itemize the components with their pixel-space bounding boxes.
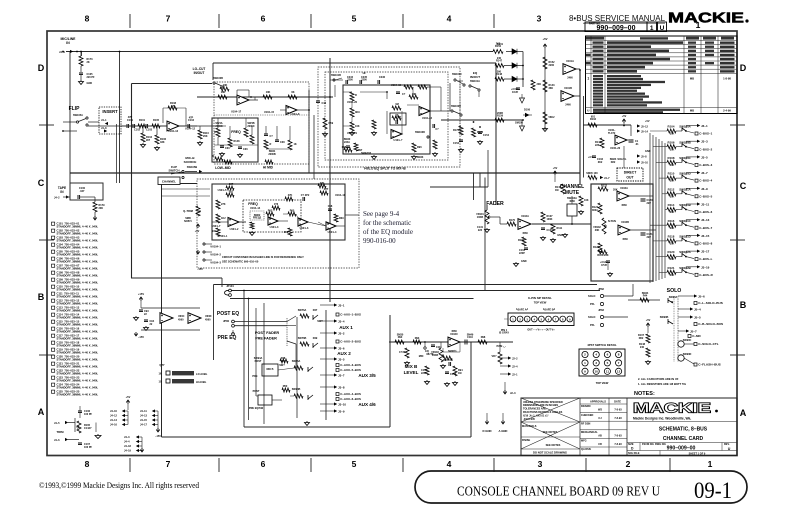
svg-text:R96 ½W: R96 ½W: [443, 358, 453, 362]
svg-text:FADER: FADER: [486, 201, 504, 207]
svg-text:D: D: [38, 63, 45, 73]
svg-text:SM48½: SM48½: [448, 349, 457, 353]
capacitor C101: [127, 124, 129, 128]
svg-text:30K: 30K: [670, 180, 675, 183]
svg-text:4560: 4560: [178, 319, 184, 322]
eq module dashed box row C: [197, 179, 359, 268]
capacitor C102: [133, 124, 135, 128]
cap C? right: [316, 101, 320, 103]
svg-text:D GND: D GND: [482, 429, 491, 433]
pan circuit box: [591, 184, 653, 281]
svg-text:J3–13: J3–13: [701, 218, 710, 222]
capacitor C111 mixb: [431, 345, 435, 347]
svg-text:J4–11: J4–11: [140, 410, 147, 413]
svg-text:STANDOFF, 38MML 4–40 X .040L: STANDOFF, 38MML 4–40 X .040L: [57, 323, 99, 327]
svg-text:240: 240: [497, 57, 502, 60]
svg-text:U104–8: U104–8: [291, 113, 300, 116]
svg-text:STANDOFF, 38MML 4–40 X .040L: STANDOFF, 38MML 4–40 X .040L: [57, 274, 99, 278]
svg-text:J2–4: J2–4: [512, 365, 518, 368]
svg-text:HI: HI: [363, 71, 366, 75]
svg-text:R116: R116: [668, 219, 675, 223]
border frame: [47, 31, 737, 456]
svg-text:J4–10: J4–10: [110, 410, 118, 413]
svg-text:951: 951: [591, 116, 596, 119]
svg-text:POST EQ: POST EQ: [217, 311, 239, 317]
svg-text:J4–9: J4–9: [59, 50, 65, 54]
svg-text:VR?: VR?: [492, 355, 497, 358]
svg-text:100 PF: 100 PF: [84, 413, 93, 416]
svg-text:AUX 3/5: AUX 3/5: [358, 373, 376, 378]
svg-text:30K: 30K: [670, 227, 675, 230]
svg-text:4560: 4560: [522, 232, 528, 235]
dotted control vertical x468: [459, 80, 461, 135]
svg-text:1: 1: [587, 77, 589, 81]
svg-text:SEE NOTES: SEE NOTES: [546, 443, 561, 447]
svg-text:C–FLASH–BUS: C–FLASH–BUS: [698, 363, 721, 367]
resistor R168 56K2: [543, 112, 547, 124]
svg-text:SCH FILE: SCH FILE: [628, 452, 640, 455]
svg-text:6K: 6K: [395, 114, 398, 117]
svg-text:J3–1: J3–1: [701, 124, 708, 128]
svg-text:½U104–3: ½U104–3: [210, 261, 221, 265]
resistor R178: [472, 128, 476, 137]
svg-text:R148: R148: [234, 140, 241, 143]
svg-text:for the schematic: for the schematic: [363, 219, 411, 227]
svg-text:U104–3: U104–3: [270, 226, 279, 229]
svg-text:10KB: 10KB: [477, 216, 484, 219]
wire horizontal y97: [197, 96, 333, 98]
svg-text:SWITCH: SWITCH: [168, 169, 179, 173]
title stadium CONSOLE CHANNEL BOARD: [415, 471, 747, 503]
svg-text:5: 5: [352, 14, 357, 24]
svg-text:10K: 10K: [221, 91, 226, 94]
svg-text:+15V: +15V: [138, 292, 144, 296]
svg-text:J5–10: J5–10: [641, 162, 649, 165]
svg-text:½U104–1: ½U104–1: [210, 245, 221, 249]
wire eq out to fader vertical: [441, 110, 450, 112]
svg-text:R: R: [270, 143, 272, 146]
svg-text:R65: R65: [290, 210, 295, 213]
wire vertical x161 channel: [161, 184, 163, 437]
aux section box edges: [244, 426, 390, 428]
solo transistor Q90: [678, 341, 684, 347]
svg-text:J4–7: J4–7: [604, 177, 610, 180]
wire direct out feed: [583, 124, 631, 126]
svg-text:C–BUS–R: C–BUS–R: [699, 273, 713, 277]
svg-text:JP82: JP82: [598, 288, 604, 291]
svg-text:3: 3: [538, 459, 543, 469]
svg-text:30K: 30K: [670, 243, 675, 246]
svg-text:J3–7: J3–7: [701, 171, 708, 175]
svg-text:+5V: +5V: [195, 230, 200, 233]
svg-text:NOTES:: NOTES:: [634, 391, 655, 397]
svg-text:30K: 30K: [670, 148, 675, 151]
svg-text:C103: C103: [146, 129, 153, 132]
svg-text:SM45 100: SM45 100: [586, 172, 598, 175]
svg-text:223: 223: [478, 229, 483, 232]
svg-text:R128 20K: R128 20K: [597, 254, 608, 257]
svg-text:U: U: [660, 25, 665, 32]
svg-text:2000B: 2000B: [268, 153, 276, 156]
zone ticks left: [39, 124, 54, 126]
supply cap C93: [139, 310, 143, 312]
svg-text:C–AUX–6–BUS: C–AUX–6–BUS: [340, 397, 361, 401]
op-amp eq c1: [228, 217, 239, 226]
resistor R164 vertical: [543, 80, 547, 92]
svg-text:20K: 20K: [595, 229, 600, 232]
svg-text:7: 7: [166, 14, 171, 24]
svg-text:C?: C?: [402, 93, 406, 96]
zone ticks right: [730, 124, 745, 126]
svg-text:CONSOLE CHANNEL BOARD 09 REV U: CONSOLE CHANNEL BOARD 09 REV U: [457, 485, 660, 500]
svg-text:U104–4: U104–4: [328, 231, 337, 234]
part number box 990-009-00: [585, 22, 647, 32]
op-amp U60D: [188, 313, 201, 324]
svg-text:STANDOFF, 38MML 4–40 X .040L: STANDOFF, 38MML 4–40 X .040L: [57, 239, 99, 243]
svg-text:1M: 1M: [395, 103, 398, 106]
svg-text:4560: 4560: [205, 319, 211, 322]
svg-text:STANDOFF, 38MML 4–40 X .040L: STANDOFF, 38MML 4–40 X .040L: [57, 232, 99, 236]
aux35 outputs: [320, 358, 334, 360]
extra ground symbols cluster: [372, 155, 377, 160]
svg-text:C–MD: C–MD: [692, 334, 701, 338]
svg-text:SW103D: SW103D: [415, 131, 425, 134]
svg-text:.047: .047: [80, 190, 85, 193]
wire bus y290: [230, 290, 600, 292]
svg-text:240: 240: [640, 346, 645, 349]
svg-text:GND: GND: [521, 260, 527, 263]
svg-text:U104–13: U104–13: [168, 130, 179, 133]
svg-text:30K: 30K: [670, 211, 675, 214]
svg-text:PFL: PFL: [590, 323, 595, 327]
wire upper routing loop y63: [213, 62, 496, 64]
svg-text:990-016-00: 990-016-00: [363, 237, 396, 245]
svg-text:STANDOFF, 38MML 4–40 X .040L: STANDOFF, 38MML 4–40 X .040L: [57, 253, 99, 257]
svg-text:09-1: 09-1: [694, 478, 732, 504]
svg-text:STANDOFF, 38MML 4–40 X .040L: STANDOFF, 38MML 4–40 X .040L: [57, 365, 99, 369]
svg-text:J3–3: J3–3: [701, 140, 708, 144]
dotted vertical post fader: [286, 318, 288, 346]
eq mute jumper: [424, 347, 426, 349]
+5V direct: [622, 119, 626, 123]
svg-text:+5V: +5V: [542, 37, 547, 41]
svg-text:C–L–SOLO–BUS: C–L–SOLO–BUS: [698, 301, 723, 305]
svg-text:C–AUX–1–BUS: C–AUX–1–BUS: [340, 313, 361, 317]
wire vertical x496 fader feed: [495, 63, 497, 205]
svg-text:J3–19: J3–19: [701, 265, 710, 269]
svg-text:U104–24: U104–24: [422, 117, 433, 120]
svg-text:C–BUS–3: C–BUS–3: [699, 163, 712, 167]
svg-text:MACKIE: MACKIE: [633, 401, 711, 416]
svg-text:STANDOFF, 38MML 4–40 X .040L: STANDOFF, 38MML 4–40 X .040L: [57, 351, 99, 355]
svg-text:U104–2: U104–2: [230, 228, 239, 231]
svg-text:TL072: TL072: [608, 132, 616, 135]
svg-text:J5–7: J5–7: [690, 330, 697, 334]
svg-text:R63: R63: [268, 210, 273, 213]
svg-text:SOLO: SOLO: [667, 288, 682, 294]
svg-text:U103B: U103B: [621, 221, 629, 224]
svg-text:LEVEL: LEVEL: [404, 370, 419, 375]
wires row C internal: [239, 221, 246, 223]
wire solo dotted box: [673, 296, 675, 362]
ground mic input: [79, 80, 84, 85]
svg-text:STANDOFF, 38MML 4–40 X .040L: STANDOFF, 38MML 4–40 X .040L: [57, 358, 99, 362]
svg-text:R49: R49: [313, 337, 318, 340]
svg-text:OUT – + V+ + – OUT: OUT – + V+ + – OUT V+: [527, 329, 555, 332]
svg-text:A GND: A GND: [499, 429, 508, 433]
wire bus y298: [230, 298, 474, 300]
svg-text:C36: C36: [243, 148, 248, 151]
svg-text:22P: 22P: [647, 236, 652, 239]
svg-text:U104–7: U104–7: [212, 225, 221, 228]
svg-text:SOLO: SOLO: [588, 294, 595, 298]
wire bus y173: [70, 172, 580, 174]
svg-text:½U104–2: ½U104–2: [210, 253, 221, 257]
hi/lo eq split dashed box inner: [325, 72, 448, 160]
svg-text:J2–2: J2–2: [512, 357, 518, 360]
svg-text:CHANNEL CARD: CHANNEL CARD: [663, 436, 704, 442]
svg-text:J3–4: J3–4: [338, 320, 345, 324]
capacitor C110 out: [465, 340, 467, 345]
svg-text:MDI: MDI: [419, 355, 424, 358]
analog ground open arrow 2: [521, 120, 523, 126]
wire y278 jp feed: [131, 277, 222, 279]
doc number row: [639, 443, 641, 451]
svg-text:1K2: 1K2: [221, 217, 226, 220]
svg-text:SW?: SW?: [317, 320, 323, 323]
svg-text:R147: R147: [496, 60, 503, 63]
svg-text:R100: R100: [518, 239, 525, 242]
svg-text:R118: R118: [668, 235, 675, 239]
svg-text:U104–15: U104–15: [264, 111, 275, 114]
svg-text:SM42/03: SM42/03: [361, 152, 372, 155]
hi/lo split internals: [350, 92, 354, 101]
switch SW101A symbol: [469, 85, 471, 87]
svg-text:C–BUS–L: C–BUS–L: [699, 257, 712, 261]
svg-text:MB: MB: [690, 77, 694, 81]
svg-text:OUT: OUT: [626, 176, 634, 180]
op-amp U104A: [160, 125, 167, 127]
svg-text:J2–3: J2–3: [510, 392, 516, 395]
fader rc network: [522, 237, 526, 246]
svg-text:C–AUX–3–BUS: C–AUX–3–BUS: [340, 363, 361, 367]
svg-text:J4–16: J4–16: [110, 424, 118, 427]
svg-text:6: 6: [261, 14, 266, 24]
svg-text:FLIP: FLIP: [69, 106, 80, 112]
svg-text:IN/OUT: IN/OUT: [194, 71, 205, 75]
wire direct-out vertical: [630, 125, 632, 136]
svg-text:J3–8: J3–8: [338, 386, 345, 390]
svg-text:3K3: 3K3: [284, 231, 289, 234]
svg-text:J3–11: J3–11: [701, 203, 710, 207]
+5V mute: [553, 171, 557, 175]
svg-text:–15V: –15V: [155, 435, 161, 438]
svg-text:+5V: +5V: [553, 167, 558, 170]
svg-text:MB: MB: [690, 109, 694, 113]
svg-text:J3–17: J3–17: [701, 250, 710, 254]
svg-text:DIRECT: DIRECT: [624, 171, 638, 175]
svg-text:SW?: SW?: [279, 364, 285, 367]
svg-text:PAN ◡: PAN ◡: [497, 344, 506, 348]
capacitor C152: [459, 140, 463, 142]
svg-text:C? 2P2: C? 2P2: [301, 194, 310, 197]
svg-text:STANDOFF, 38MML 4–40 X .040L: STANDOFF, 38MML 4–40 X .040L: [57, 379, 99, 383]
svg-text:J5–5: J5–5: [694, 316, 701, 320]
resistor R146 10K: [579, 196, 583, 206]
wire row C entry: [197, 188, 210, 190]
svg-text:PRE: PRE: [252, 375, 257, 378]
svg-text:AB: AB: [598, 434, 602, 437]
aux46 outputs: [320, 386, 334, 388]
pan detail pot: [498, 352, 502, 364]
svg-text:PART NO.: PART NO.: [589, 23, 601, 26]
svg-text:MECHANICAL: MECHANICAL: [581, 431, 598, 434]
svg-text:SW94B: SW94B: [292, 388, 301, 391]
resistor R122 20K: [598, 187, 608, 191]
op-amp U60C: [160, 313, 173, 324]
svg-text:30K: 30K: [670, 164, 675, 167]
svg-text:TOP VIEW: TOP VIEW: [596, 381, 609, 385]
svg-text:SHEET 1 OF 9: SHEET 1 OF 9: [689, 453, 706, 456]
svg-text:©1993,©1999 Mackie Designs Inc: ©1993,©1999 Mackie Designs Inc. All righ…: [39, 481, 199, 490]
capacitor C121: [641, 233, 646, 235]
svg-text:MUTE: MUTE: [565, 190, 580, 196]
svg-text:36K: 36K: [549, 87, 554, 90]
analog ground open arrow 1: [521, 94, 523, 98]
trim gnd: [95, 423, 97, 433]
svg-text:STANDOFF, 38MML 4–40 X .040L: STANDOFF, 38MML 4–40 X .040L: [57, 386, 99, 390]
svg-text:C142Y: C142Y: [84, 427, 92, 430]
svg-text:CIRCUIT CONTAINED IN DASHED LI: CIRCUIT CONTAINED IN DASHED LINE IS FOR …: [222, 255, 304, 259]
wire fader to mute: [532, 223, 591, 225]
svg-text:200R: 200R: [497, 112, 503, 115]
aux internal wires: [243, 291, 245, 428]
svg-text:STANDOFF, 38MML 4–40 X .040L: STANDOFF, 38MML 4–40 X .040L: [57, 330, 99, 334]
svg-text:30K: 30K: [670, 274, 675, 277]
svg-text:STANDOFF, 38MML 4–40 X .040L: STANDOFF, 38MML 4–40 X .040L: [57, 372, 99, 376]
svg-text:7-8-93: 7-8-93: [614, 434, 622, 437]
resistor R44 solo: [640, 298, 649, 302]
svg-text:of the EQ module: of the EQ module: [363, 228, 413, 236]
parts list standoffs: [52, 222, 55, 225]
svg-text:C–BUS–7: C–BUS–7: [699, 226, 712, 230]
svg-text:1: 1: [708, 459, 713, 469]
svg-text:STANDOFF, 38MML 4–40 X .040L: STANDOFF, 38MML 4–40 X .040L: [57, 302, 99, 306]
feedback resistor R108: [162, 108, 164, 123]
svg-text:STANDOFF, 38MML 4–40 X .040L: STANDOFF, 38MML 4–40 X .040L: [57, 281, 99, 285]
direct out dashed box: [617, 168, 643, 181]
resistor R110 vertical: [199, 126, 201, 130]
op-amp U102C: [448, 337, 460, 347]
wire vertical x309: [308, 90, 310, 173]
wire insert row baseline: [88, 125, 167, 127]
mute ground: [563, 233, 568, 238]
op-amp output network: [179, 125, 197, 127]
resistor R144 22K: [600, 138, 604, 148]
capacitor C1 direct: [629, 140, 634, 142]
wire y83 locut feed: [132, 83, 213, 85]
svg-text:C–AUX–5–BUS: C–AUX–5–BUS: [340, 368, 361, 372]
capacitor box 47NF: [390, 113, 406, 125]
svg-text:R98: R98: [481, 336, 486, 339]
svg-text:MACKIE: MACKIE: [668, 11, 744, 27]
wire mic/line main: [66, 51, 493, 53]
wire y120 eq out: [441, 119, 523, 121]
eq dashed box row D: [214, 82, 309, 164]
hi/lo inner box: [343, 85, 430, 154]
svg-text:HI AXBL: HI AXBL: [196, 380, 207, 384]
svg-text:GND: GND: [557, 234, 563, 237]
svg-text:C40: C40: [322, 102, 327, 105]
svg-text:+5V: +5V: [646, 319, 651, 322]
resistor R150 on main wire: [493, 50, 503, 54]
resistor R101: [138, 124, 146, 128]
svg-text:STANDOFF, 38MML 4–40 X .040L: STANDOFF, 38MML 4–40 X .040L: [57, 344, 99, 348]
svg-text:POST FADER: POST FADER: [255, 331, 280, 335]
low-mid block box: [212, 118, 258, 162]
svg-text:R59: R59: [329, 122, 334, 125]
svg-text:J4–15: J4–15: [140, 419, 148, 422]
+5V arrow top: [543, 44, 547, 48]
wire hi-lo internals: [343, 91, 352, 93]
svg-text:NOB½: NOB½: [184, 219, 192, 223]
svg-text:C30: C30: [225, 147, 230, 150]
svg-text:A: A: [740, 408, 747, 418]
svg-text:1-8-98: 1-8-98: [723, 77, 731, 81]
svg-text:30K: 30K: [670, 258, 675, 261]
svg-text:SW105A: SW105A: [73, 114, 83, 117]
op-amp U103A: [617, 191, 629, 201]
wire vertical x523: [522, 52, 524, 88]
svg-text:.01: .01: [635, 143, 639, 146]
svg-text:R101: R101: [139, 119, 146, 122]
svg-text:R93: R93: [415, 337, 420, 340]
svg-text:2K: 2K: [87, 61, 90, 64]
svg-text:C–BUS–5: C–BUS–5: [699, 194, 712, 198]
svg-text:C?: C?: [435, 128, 439, 131]
svg-text:STANDOFF, 38MML 4–40 X .040L: STANDOFF, 38MML 4–40 X .040L: [57, 309, 99, 313]
svg-text:MFG: MFG: [581, 440, 587, 443]
svg-text:47UF: 47UF: [601, 264, 608, 267]
svg-text:56K2: 56K2: [549, 116, 556, 119]
resistor on box bottom 1: [224, 160, 232, 164]
svg-text:SW90B: SW90B: [660, 316, 669, 319]
svg-text:C236: C236: [379, 76, 386, 79]
svg-text:7-8-93: 7-8-93: [614, 443, 622, 446]
wire mixb y342: [389, 341, 448, 343]
resistor R159 200R: [495, 118, 504, 122]
resistor R176: [459, 126, 463, 135]
svg-text:990–009–00: 990–009–00: [597, 25, 636, 32]
svg-text:J3–10: J3–10: [338, 403, 346, 407]
svg-text:–15V: –15V: [197, 268, 203, 271]
svg-text:D101: D101: [497, 43, 504, 46]
svg-text:U: U: [587, 109, 589, 113]
wire eq row C baseline: [212, 221, 228, 223]
wire bus stubs: [650, 130, 667, 132]
diode row 2: [495, 64, 504, 68]
resistor R113 10K: [218, 95, 227, 99]
svg-text:J4–3: J4–3: [124, 436, 130, 439]
svg-text:PRE FADER: PRE FADER: [255, 337, 277, 341]
svg-text:4560: 4560: [622, 238, 628, 241]
wire fader input: [486, 205, 488, 210]
svg-text:C–BUS–4: C–BUS–4: [699, 179, 712, 183]
svg-text:C–B–SOLO–BUS: C–B–SOLO–BUS: [698, 322, 723, 326]
svg-text:FREQ: FREQ: [231, 130, 241, 134]
svg-text:R22: R22: [611, 161, 616, 164]
svg-text:U102C: U102C: [450, 333, 458, 336]
